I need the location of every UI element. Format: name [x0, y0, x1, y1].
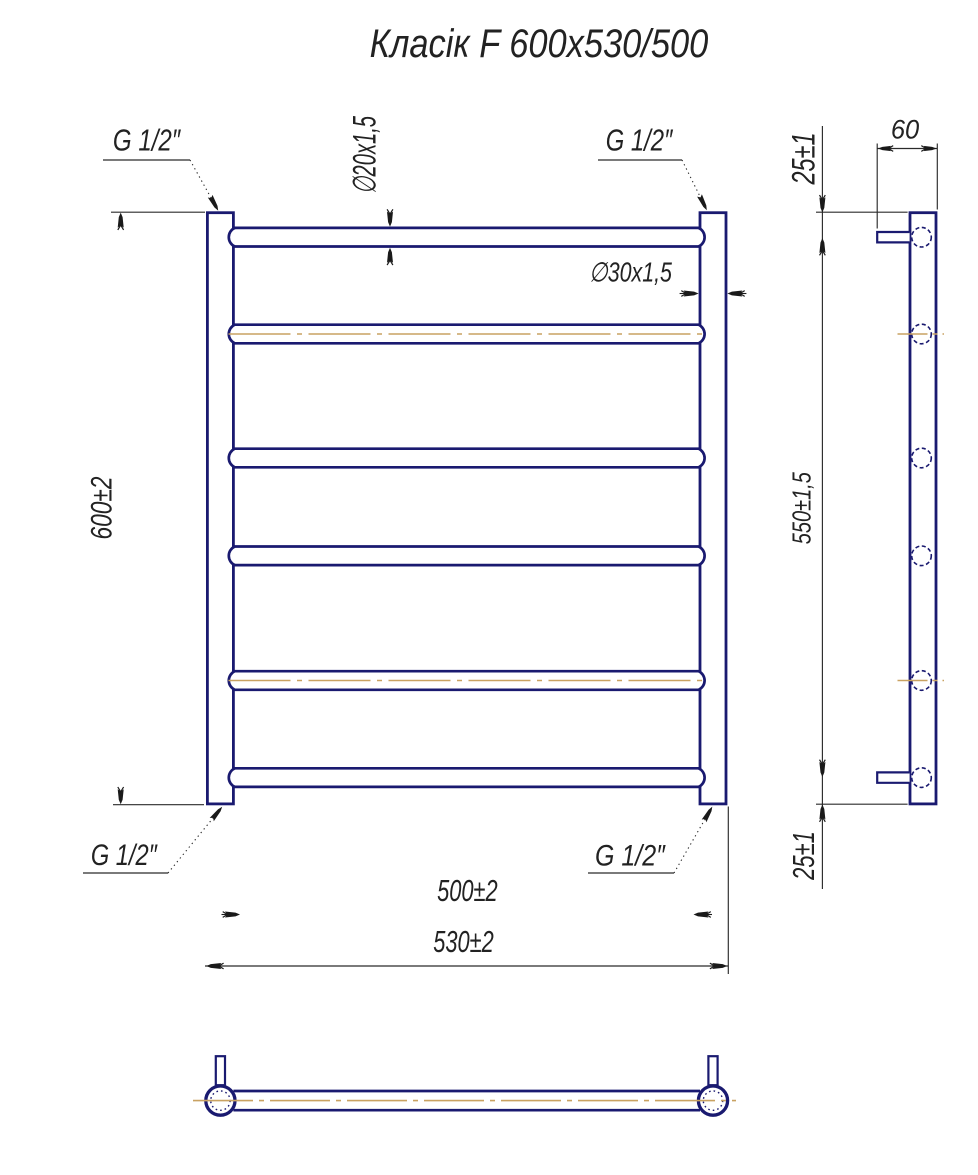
svg-text:G 1/2″: G 1/2″ [91, 838, 158, 871]
svg-text:500±2: 500±2 [437, 873, 498, 908]
svg-text:530±2: 530±2 [433, 924, 494, 959]
svg-text:∅20x1,5: ∅20x1,5 [347, 115, 383, 194]
svg-text:60: 60 [891, 114, 920, 145]
svg-text:Класік F 600x530/500: Класік F 600x530/500 [370, 21, 709, 66]
svg-text:600±2: 600±2 [85, 476, 119, 539]
svg-text:G 1/2″: G 1/2″ [595, 838, 666, 872]
svg-text:550±1,5: 550±1,5 [787, 471, 816, 544]
svg-text:25±1: 25±1 [787, 831, 822, 881]
svg-text:∅30x1,5: ∅30x1,5 [589, 258, 672, 288]
svg-text:25±1: 25±1 [785, 132, 822, 185]
svg-text:G 1/2″: G 1/2″ [606, 123, 674, 157]
svg-text:G 1/2″: G 1/2″ [113, 123, 181, 157]
